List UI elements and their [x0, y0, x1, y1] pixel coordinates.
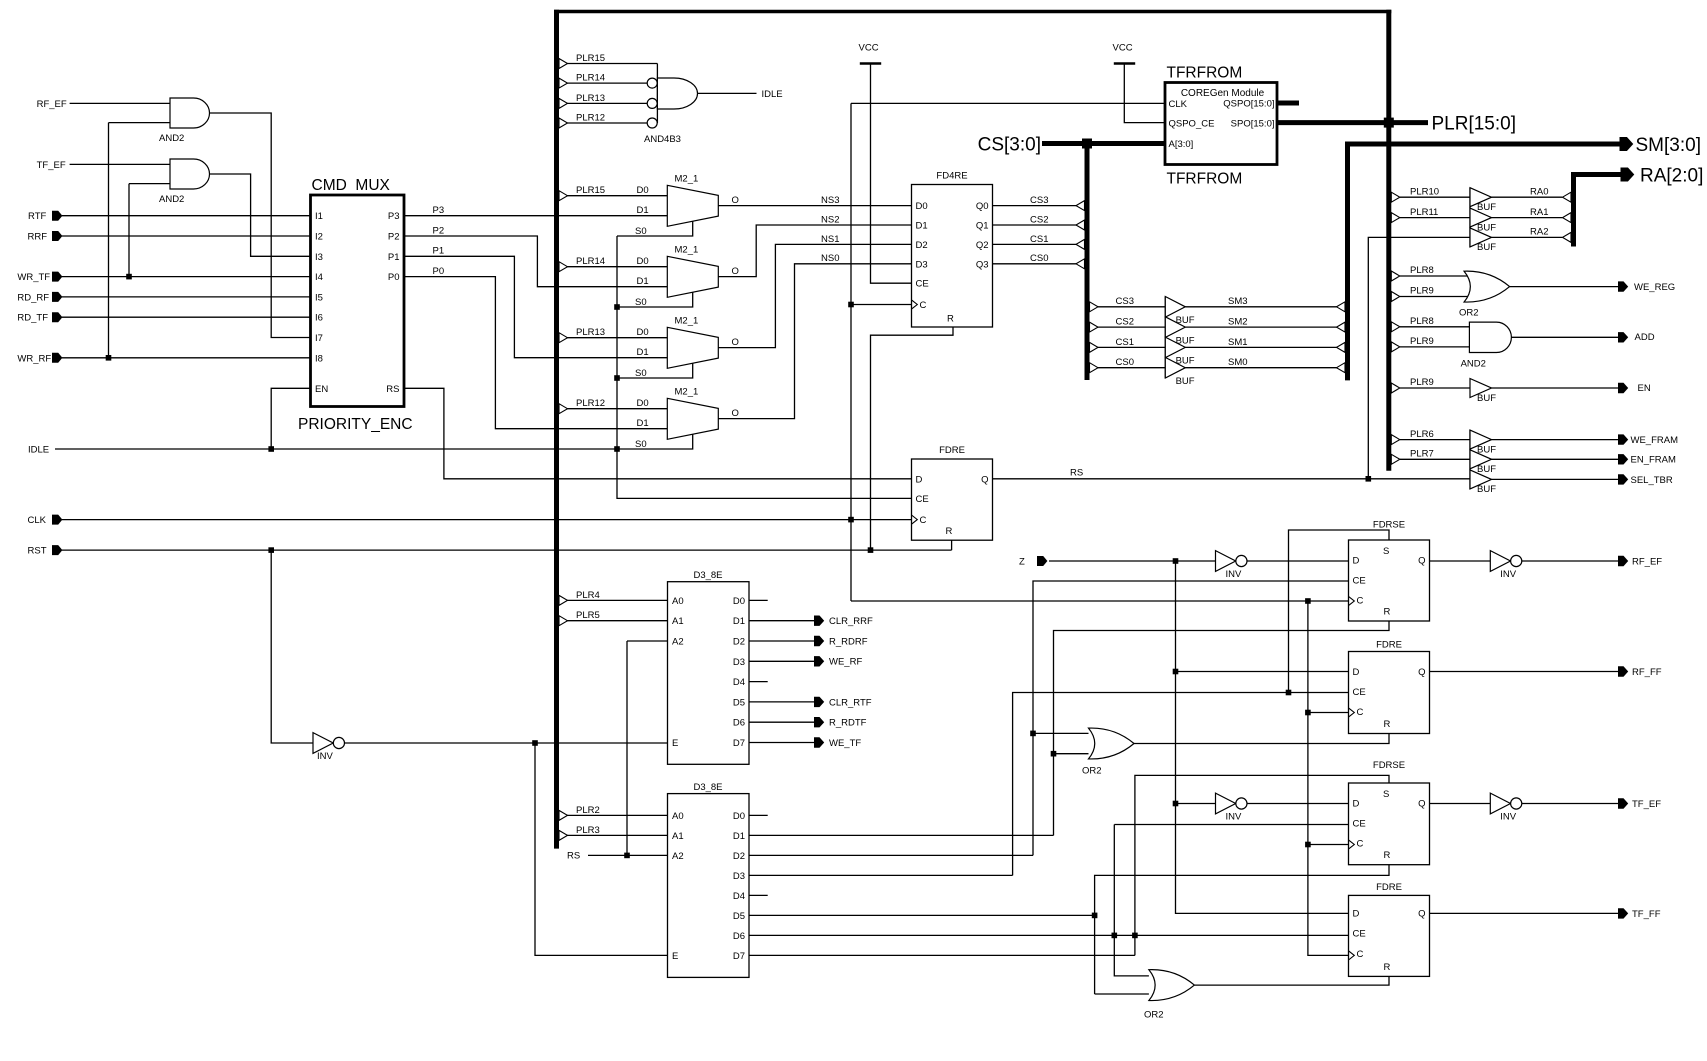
- svg-text:FD4RE: FD4RE: [936, 170, 967, 181]
- svg-text:OR2: OR2: [1459, 307, 1479, 318]
- svg-text:P2: P2: [433, 225, 445, 236]
- svg-text:I2: I2: [315, 232, 323, 243]
- svg-text:BUF: BUF: [1176, 315, 1195, 326]
- svg-text:O: O: [732, 195, 739, 206]
- svg-text:R_RDRF: R_RDRF: [829, 636, 868, 647]
- svg-text:NS2: NS2: [821, 214, 839, 225]
- svg-text:IDLE: IDLE: [762, 89, 783, 100]
- svg-text:R_RDTF: R_RDTF: [829, 718, 867, 729]
- svg-text:PLR15: PLR15: [576, 185, 605, 196]
- svg-text:RST: RST: [28, 546, 47, 557]
- svg-text:FDRSE: FDRSE: [1373, 760, 1405, 771]
- svg-text:D0: D0: [916, 201, 928, 212]
- svg-text:BUF: BUF: [1176, 376, 1195, 387]
- svg-text:WE_REG: WE_REG: [1634, 282, 1675, 293]
- svg-text:D3_8E: D3_8E: [693, 570, 722, 581]
- svg-text:C: C: [920, 300, 927, 311]
- svg-text:C: C: [1357, 596, 1364, 607]
- svg-text:RA1: RA1: [1530, 207, 1548, 218]
- svg-text:BUF: BUF: [1477, 444, 1496, 455]
- svg-text:SM[3:0]: SM[3:0]: [1636, 135, 1701, 156]
- svg-text:WE_TF: WE_TF: [829, 738, 861, 749]
- svg-text:TF_FF: TF_FF: [1632, 909, 1661, 920]
- svg-text:RF_FF: RF_FF: [1632, 667, 1662, 678]
- svg-text:D3_8E: D3_8E: [693, 782, 722, 793]
- svg-text:TFRFROM: TFRFROM: [1167, 170, 1243, 187]
- svg-text:D1: D1: [733, 616, 745, 627]
- svg-text:D: D: [1353, 909, 1360, 920]
- svg-text:I3: I3: [315, 252, 323, 263]
- svg-text:WE_RF: WE_RF: [829, 657, 862, 668]
- svg-text:D: D: [1353, 556, 1360, 567]
- svg-text:PLR14: PLR14: [576, 256, 605, 267]
- svg-text:FDRE: FDRE: [1376, 639, 1402, 650]
- svg-text:CE: CE: [1353, 687, 1366, 698]
- svg-text:AND2: AND2: [159, 194, 184, 205]
- svg-text:D5: D5: [733, 697, 745, 708]
- svg-text:CLR_RRF: CLR_RRF: [829, 616, 873, 627]
- svg-text:PRIORITY_ENC: PRIORITY_ENC: [298, 416, 413, 433]
- svg-text:S: S: [1383, 789, 1389, 800]
- svg-text:P0: P0: [388, 272, 400, 283]
- svg-text:A0: A0: [672, 596, 684, 607]
- svg-text:D4: D4: [733, 677, 745, 688]
- svg-text:PLR9: PLR9: [1410, 286, 1434, 297]
- svg-text:PLR5: PLR5: [576, 610, 600, 621]
- svg-text:C: C: [1357, 838, 1364, 849]
- svg-text:R: R: [947, 314, 954, 325]
- svg-text:OR2: OR2: [1144, 1010, 1164, 1021]
- svg-text:VCC: VCC: [1113, 43, 1133, 54]
- svg-text:D3: D3: [733, 871, 745, 882]
- svg-text:CS3: CS3: [1030, 195, 1048, 206]
- svg-text:FDRSE: FDRSE: [1373, 520, 1405, 531]
- svg-text:PLR6: PLR6: [1410, 429, 1434, 440]
- svg-text:AND2: AND2: [1461, 359, 1486, 370]
- svg-text:A2: A2: [672, 637, 684, 648]
- svg-text:D5: D5: [733, 911, 745, 922]
- svg-text:D6: D6: [733, 931, 745, 942]
- svg-text:SM0: SM0: [1228, 357, 1248, 368]
- svg-text:PLR11: PLR11: [1410, 207, 1438, 218]
- svg-text:O: O: [732, 337, 739, 348]
- svg-text:SM3: SM3: [1228, 296, 1248, 307]
- svg-text:M2_1: M2_1: [675, 244, 699, 255]
- svg-text:D1: D1: [916, 221, 928, 232]
- svg-text:BUF: BUF: [1477, 393, 1496, 404]
- svg-text:PLR12: PLR12: [576, 398, 605, 409]
- svg-text:INV: INV: [1500, 812, 1517, 823]
- svg-text:TFRFROM: TFRFROM: [1167, 65, 1243, 82]
- svg-text:I8: I8: [315, 353, 323, 364]
- svg-text:Z: Z: [1019, 557, 1025, 568]
- svg-text:RTF: RTF: [28, 211, 46, 222]
- svg-text:PLR2: PLR2: [576, 805, 600, 816]
- svg-text:D: D: [1353, 667, 1360, 678]
- svg-text:D7: D7: [733, 951, 745, 962]
- svg-text:FDRE: FDRE: [1376, 882, 1402, 893]
- svg-text:C: C: [920, 515, 927, 526]
- svg-text:RF_EF: RF_EF: [1632, 557, 1662, 568]
- svg-text:INV: INV: [1226, 569, 1243, 580]
- svg-text:RS: RS: [386, 384, 399, 395]
- svg-text:D0: D0: [733, 811, 745, 822]
- svg-text:P1: P1: [433, 246, 445, 257]
- svg-text:A[3:0]: A[3:0]: [1169, 139, 1194, 150]
- svg-text:PLR15: PLR15: [576, 53, 605, 64]
- svg-text:D1: D1: [637, 418, 649, 429]
- svg-text:O: O: [732, 408, 739, 419]
- svg-text:COREGen Module: COREGen Module: [1181, 88, 1265, 99]
- svg-text:Q: Q: [981, 474, 988, 485]
- svg-text:BUF: BUF: [1477, 242, 1496, 253]
- svg-text:A2: A2: [672, 851, 684, 862]
- svg-text:S0: S0: [635, 226, 647, 237]
- svg-text:WR_RF: WR_RF: [17, 353, 51, 364]
- svg-text:TF_EF: TF_EF: [1632, 799, 1661, 810]
- svg-text:RA2: RA2: [1530, 227, 1548, 238]
- svg-text:INV: INV: [317, 751, 334, 762]
- svg-text:EN_FRAM: EN_FRAM: [1631, 455, 1676, 466]
- svg-text:O: O: [732, 266, 739, 277]
- svg-text:BUF: BUF: [1176, 335, 1195, 346]
- svg-text:D2: D2: [733, 851, 745, 862]
- svg-text:D7: D7: [733, 738, 745, 749]
- svg-text:BUF: BUF: [1477, 222, 1496, 233]
- svg-text:E: E: [672, 951, 678, 962]
- svg-text:CS3: CS3: [1116, 296, 1134, 307]
- svg-text:PLR9: PLR9: [1410, 377, 1434, 388]
- svg-text:SM2: SM2: [1228, 317, 1248, 328]
- svg-text:A1: A1: [672, 616, 684, 627]
- svg-text:R: R: [1384, 962, 1391, 973]
- svg-text:AND4B3: AND4B3: [644, 134, 681, 145]
- svg-text:AND2: AND2: [159, 133, 184, 144]
- svg-text:WE_FRAM: WE_FRAM: [1631, 435, 1679, 446]
- svg-text:R: R: [1384, 850, 1391, 861]
- svg-text:Q: Q: [1418, 667, 1425, 678]
- svg-text:I1: I1: [315, 211, 323, 222]
- svg-text:RD_RF: RD_RF: [17, 292, 49, 303]
- svg-text:PLR13: PLR13: [576, 327, 605, 338]
- svg-text:Q: Q: [1418, 798, 1425, 809]
- svg-text:D0: D0: [637, 256, 649, 267]
- svg-text:TF_EF: TF_EF: [37, 160, 66, 171]
- svg-text:IDLE: IDLE: [28, 445, 49, 456]
- svg-text:R: R: [1384, 607, 1391, 618]
- svg-text:CLK: CLK: [28, 515, 47, 526]
- svg-text:CS1: CS1: [1030, 234, 1048, 245]
- svg-text:SEL_TBR: SEL_TBR: [1631, 475, 1673, 486]
- svg-text:D2: D2: [916, 240, 928, 251]
- svg-text:PLR8: PLR8: [1410, 316, 1434, 327]
- svg-text:I7: I7: [315, 333, 323, 344]
- svg-text:E: E: [672, 738, 678, 749]
- svg-text:D6: D6: [733, 718, 745, 729]
- svg-text:BUF: BUF: [1477, 484, 1496, 495]
- svg-text:RF_EF: RF_EF: [37, 99, 67, 110]
- svg-text:RA[2:0]: RA[2:0]: [1640, 165, 1703, 186]
- svg-text:VCC: VCC: [859, 43, 879, 54]
- svg-text:I4: I4: [315, 272, 323, 283]
- svg-text:A1: A1: [672, 831, 684, 842]
- svg-text:D1: D1: [637, 347, 649, 358]
- svg-text:S: S: [1383, 546, 1389, 557]
- svg-text:C: C: [1357, 707, 1364, 718]
- svg-text:CE: CE: [916, 279, 929, 290]
- svg-text:NS3: NS3: [821, 195, 839, 206]
- svg-text:PLR10: PLR10: [1410, 186, 1439, 197]
- svg-text:RA0: RA0: [1530, 186, 1548, 197]
- svg-text:EN: EN: [1638, 383, 1651, 394]
- svg-text:S0: S0: [635, 439, 647, 450]
- svg-text:PLR14: PLR14: [576, 73, 605, 84]
- svg-text:P3: P3: [388, 211, 400, 222]
- svg-text:RS: RS: [1070, 467, 1083, 478]
- svg-text:D0: D0: [637, 327, 649, 338]
- svg-text:EN: EN: [315, 384, 328, 395]
- svg-text:P1: P1: [388, 252, 400, 263]
- svg-text:SPO[15:0]: SPO[15:0]: [1231, 118, 1275, 129]
- svg-text:BUF: BUF: [1477, 464, 1496, 475]
- svg-text:CMD MUX: CMD MUX: [312, 177, 391, 194]
- svg-text:D4: D4: [733, 891, 745, 902]
- svg-text:CS[3:0]: CS[3:0]: [978, 134, 1041, 155]
- svg-text:NS1: NS1: [821, 234, 839, 245]
- svg-text:Q2: Q2: [976, 240, 989, 251]
- svg-text:PLR9: PLR9: [1410, 336, 1434, 347]
- svg-text:I6: I6: [315, 313, 323, 324]
- svg-text:S0: S0: [635, 368, 647, 379]
- svg-text:P3: P3: [433, 205, 445, 216]
- svg-text:SM1: SM1: [1228, 337, 1248, 348]
- svg-text:OR2: OR2: [1082, 766, 1102, 777]
- svg-text:D1: D1: [637, 276, 649, 287]
- svg-text:M2_1: M2_1: [675, 386, 699, 397]
- svg-text:D0: D0: [637, 185, 649, 196]
- svg-text:PLR8: PLR8: [1410, 265, 1434, 276]
- svg-text:Q: Q: [1418, 556, 1425, 567]
- svg-text:D3: D3: [733, 657, 745, 668]
- svg-text:Q3: Q3: [976, 259, 989, 270]
- svg-text:D2: D2: [733, 637, 745, 648]
- svg-text:D0: D0: [637, 398, 649, 409]
- svg-text:P0: P0: [433, 266, 445, 277]
- svg-text:CS1: CS1: [1116, 337, 1134, 348]
- svg-text:CLR_RTF: CLR_RTF: [829, 697, 872, 708]
- svg-text:ADD: ADD: [1635, 332, 1655, 343]
- svg-text:R: R: [1384, 719, 1391, 730]
- svg-text:PLR3: PLR3: [576, 825, 600, 836]
- svg-text:WR_TF: WR_TF: [17, 272, 50, 283]
- svg-text:BUF: BUF: [1176, 356, 1195, 367]
- svg-text:R: R: [946, 526, 953, 537]
- svg-text:C: C: [1357, 949, 1364, 960]
- svg-text:PLR12: PLR12: [576, 112, 605, 123]
- svg-text:RRF: RRF: [28, 232, 48, 243]
- svg-text:PLR[15:0]: PLR[15:0]: [1432, 114, 1517, 135]
- svg-text:RS: RS: [567, 851, 580, 862]
- svg-text:D1: D1: [733, 831, 745, 842]
- svg-text:CS2: CS2: [1030, 214, 1048, 225]
- svg-text:M2_1: M2_1: [675, 173, 699, 184]
- svg-text:A0: A0: [672, 811, 684, 822]
- svg-text:Q0: Q0: [976, 201, 989, 212]
- svg-text:P2: P2: [388, 232, 400, 243]
- svg-text:PLR13: PLR13: [576, 93, 605, 104]
- svg-text:BUF: BUF: [1477, 202, 1496, 213]
- svg-text:CE: CE: [1353, 929, 1366, 940]
- svg-text:QSPO_CE: QSPO_CE: [1169, 118, 1215, 129]
- svg-text:CLK: CLK: [1169, 99, 1188, 110]
- svg-text:INV: INV: [1500, 569, 1517, 580]
- svg-text:Q1: Q1: [976, 221, 989, 232]
- svg-text:Q: Q: [1418, 909, 1425, 920]
- svg-text:D: D: [1353, 798, 1360, 809]
- svg-text:PLR4: PLR4: [576, 590, 600, 601]
- svg-text:CS0: CS0: [1116, 357, 1134, 368]
- svg-text:CS2: CS2: [1116, 317, 1134, 328]
- svg-text:D1: D1: [637, 205, 649, 216]
- svg-text:INV: INV: [1226, 812, 1243, 823]
- svg-text:CE: CE: [1353, 818, 1366, 829]
- svg-text:D: D: [916, 474, 923, 485]
- svg-text:CS0: CS0: [1030, 253, 1048, 264]
- svg-text:PLR7: PLR7: [1410, 449, 1434, 460]
- svg-text:RD_TF: RD_TF: [17, 313, 48, 324]
- svg-text:S0: S0: [635, 297, 647, 308]
- svg-text:FDRE: FDRE: [939, 445, 965, 456]
- svg-text:QSPO[15:0]: QSPO[15:0]: [1223, 98, 1274, 109]
- svg-text:D3: D3: [916, 259, 928, 270]
- svg-text:M2_1: M2_1: [675, 315, 699, 326]
- svg-text:CE: CE: [1353, 576, 1366, 587]
- svg-text:D0: D0: [733, 596, 745, 607]
- svg-text:I5: I5: [315, 292, 323, 303]
- svg-text:CE: CE: [916, 494, 929, 505]
- svg-text:NS0: NS0: [821, 253, 839, 264]
